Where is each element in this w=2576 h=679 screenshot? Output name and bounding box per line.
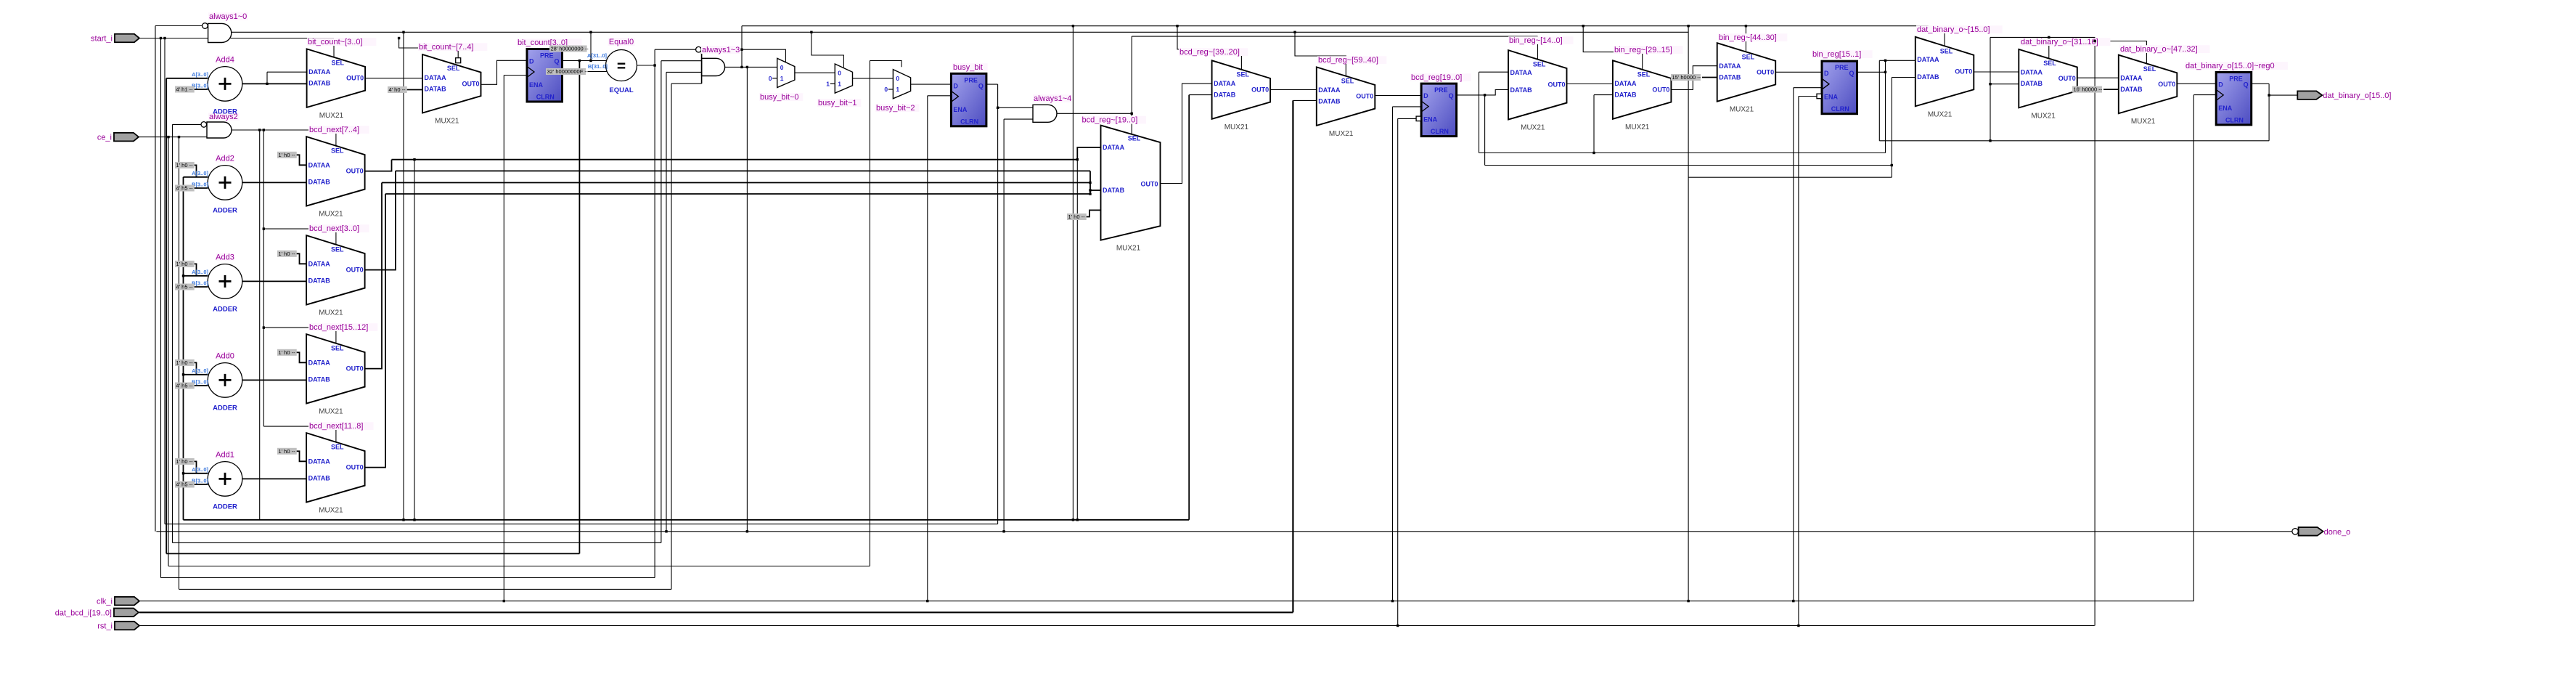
svg-text:OUT0: OUT0: [2158, 81, 2175, 88]
comparator Equal0: [606, 50, 637, 81]
svg-text:always1~3: always1~3: [702, 46, 740, 54]
svg-text:B[31..0]: B[31..0]: [588, 63, 608, 70]
wire clock into reg0: [2193, 94, 2216, 96]
wire net y721: [165, 524, 998, 525]
wire bus into bcd_reg~[19..0] DATAA: [1077, 147, 1100, 160]
AND gate always1~0: [208, 23, 232, 42]
svg-text:DATAA: DATAA: [308, 161, 331, 168]
mux MUX21 bit_count~[7..4]: [422, 54, 481, 113]
svg-text:15' h0000 --: 15' h0000 --: [1672, 74, 1701, 81]
wire Add2 sum to bcd_next[7..4] DATAB: [242, 182, 306, 183]
wire SEL drop into dat_binary_o~[15..0]: [1929, 26, 1945, 46]
wire SEL drop into busy_bit~1: [811, 32, 844, 68]
svg-text:MUX21: MUX21: [2031, 112, 2056, 120]
wire carry-in elbow of Add2: [192, 165, 197, 176]
wire carry-in elbow of Add1: [192, 461, 197, 473]
AND gate always1~3: [702, 58, 725, 76]
svg-text:busy_bit~0: busy_bit~0: [760, 93, 799, 102]
wire riser x2742: [1990, 37, 1991, 140]
svg-text:DATAB: DATAB: [1510, 86, 1533, 94]
constant 1' h0 carry-in of Add2: [175, 162, 195, 168]
svg-text:OUT0: OUT0: [1251, 86, 1269, 94]
wire bcd_reg~[59..40] OUT0 to bcd_reg DFF D: [1375, 95, 1421, 97]
wire bus into bcd_reg~[19..0] DATAB: [1090, 190, 1101, 191]
constant 1' h0 carry-in of Add3: [175, 261, 195, 267]
wire clock into bin_reg DFF: [1794, 87, 1822, 89]
svg-text:busy_bit~1: busy_bit~1: [818, 99, 857, 107]
wire vertical net x214 (always1~0 input): [155, 26, 156, 532]
svg-text:Add4: Add4: [216, 55, 234, 64]
wire clock into busy_bit DFF: [928, 95, 952, 97]
svg-text:dat_binary_o~[47..32]: dat_binary_o~[47..32]: [2120, 45, 2198, 54]
wire Equal0 net vertical x902: [654, 49, 655, 577]
wire: [192, 89, 208, 90]
mux MUX21 bcd_next[15..12]: [306, 334, 365, 403]
svg-text:OUT0: OUT0: [1757, 69, 1774, 76]
wire SEL drop into dat_binary_o~[47..32]: [2095, 41, 2146, 64]
wire bcd_next bus net y219: [392, 159, 1078, 160]
svg-text:1' h0 --: 1' h0 --: [279, 349, 296, 356]
svg-text:1: 1: [780, 75, 784, 82]
wire riser x2606: [1891, 78, 1892, 178]
wire bin_reg~[14..0] DATAA input: [1479, 71, 1509, 73]
constant 1' h0 driving bcd_next mux DATAA: [277, 152, 297, 158]
svg-text:SEL: SEL: [331, 147, 344, 155]
ENA input bubble of bin_reg[15..1]: [1817, 94, 1822, 99]
wire bin_reg~[29..15] DATAB input: [1594, 94, 1613, 96]
adder Add4: [208, 67, 242, 102]
wire 15' h0000 const to bin_reg~[44..30] DATAB: [1702, 77, 1717, 78]
wire bin_reg~[14..0] OUT0 to bin_reg~[29..15] DATAA: [1567, 84, 1613, 85]
wire always1~3 input 3: [666, 71, 702, 73]
wire const elbow bcd_reg~[19..0]: [1085, 210, 1101, 216]
svg-text:bcd_reg[19..0]: bcd_reg[19..0]: [1411, 73, 1462, 82]
svg-text:ce_i: ce_i: [97, 134, 112, 142]
svg-text:EQUAL: EQUAL: [609, 86, 633, 94]
svg-text:DATAB: DATAB: [308, 178, 331, 185]
svg-text:0: 0: [884, 86, 888, 93]
svg-text:OUT0: OUT0: [1955, 68, 1972, 75]
wire Add4 A input: [166, 78, 208, 79]
svg-text:DATAB: DATAB: [308, 474, 331, 481]
wire bcd_reg~[39..20] DATAB input: [1189, 94, 1211, 96]
wire: [192, 484, 208, 485]
svg-text:DATAA: DATAA: [1103, 144, 1125, 151]
mux MUX21 dat_binary_o~[15..0]: [1915, 37, 1974, 107]
wire SEL drop into dat_binary_o~[31..16]: [2048, 37, 2050, 58]
constant 4' h5 driving B of Add2: [175, 185, 195, 192]
wire carry-in elbow of Add0: [192, 362, 197, 374]
wire feedback riser x2037: [1479, 72, 1480, 153]
svg-text:D: D: [1824, 70, 1829, 77]
svg-text:bin_reg~[29..15]: bin_reg~[29..15]: [1614, 46, 1672, 54]
wire busy net y747: [173, 542, 661, 543]
svg-text:SEL: SEL: [2043, 60, 2056, 67]
wire clk_i net y827: [139, 601, 2193, 602]
svg-text:A[31..0]: A[31..0]: [587, 52, 608, 59]
wire busy_bit~2 OUT to busy_bit DFF D: [911, 84, 952, 85]
clock input triangle of bin_reg[15..1]: [1822, 78, 1829, 89]
wire vertical x1484 down to feedback net: [1076, 160, 1078, 520]
svg-text:4' h5 --: 4' h5 --: [176, 284, 194, 290]
input pin dat_bcd_i[19..0]: [114, 609, 139, 617]
svg-text:1: 1: [838, 81, 841, 88]
svg-text:bit_count~[3..0]: bit_count~[3..0]: [308, 38, 363, 46]
wire bcd_next feedback net y715 (thick): [184, 519, 1190, 521]
svg-text:DATAA: DATAA: [1510, 69, 1533, 76]
wire riser x2597: [1885, 60, 1886, 153]
wire: [192, 187, 208, 189]
svg-text:Q: Q: [2244, 81, 2249, 88]
wire always1~3 output to busy_bit~0 input 0: [725, 66, 777, 68]
svg-text:DATAB: DATAB: [1719, 74, 1741, 81]
svg-text:Q: Q: [1849, 70, 1854, 77]
wire dat_binary_o feedback net y194: [1879, 140, 2269, 142]
wire [31..16] OUT0 to [47..32] DATAA: [2077, 77, 2119, 78]
svg-text:0: 0: [780, 64, 784, 71]
wire busy_bit Q feedback vertical x1374: [997, 84, 999, 524]
adder Add2: [208, 166, 242, 200]
wire 4' h0 const to bit_count~[7..4] DATAB: [406, 89, 422, 91]
wire ENA into bin_reg DFF: [1799, 96, 1817, 97]
wire Add0 sum to bcd_next[15..12] DATAB: [242, 379, 306, 381]
mux MUX21 bcd_reg~[19..0]: [1101, 126, 1161, 240]
wire always2 SEL vertical x363: [263, 130, 264, 426]
wire always1~3 input 2: [661, 60, 702, 62]
wire to always1~4 input 2: [1004, 118, 1033, 120]
svg-text:4' h0 --: 4' h0 --: [389, 86, 406, 93]
wire net y244: [1688, 176, 1892, 178]
wire vertical net x237 (always2 input): [172, 124, 173, 542]
svg-text:DATAA: DATAA: [2021, 69, 2043, 76]
ENA input bubble of bcd_reg[19..0]: [1416, 116, 1421, 121]
svg-text:D: D: [2218, 81, 2223, 88]
wire vertical net x252 (bcd_reg feedback to adder A inputs): [183, 177, 184, 520]
D flip-flop dat_binary_o[15..0]~reg0: [2216, 72, 2252, 124]
svg-text:ENA: ENA: [1423, 116, 1438, 123]
constant 1' h0 driving bcd_next mux DATAA: [277, 448, 297, 455]
svg-text:bin_reg~[14..0]: bin_reg~[14..0]: [1509, 36, 1563, 45]
wire clk riser x1278: [927, 96, 928, 601]
wire bit_count~[3..0] OUT0 to bit_count~[7..4] DATAA: [365, 78, 422, 79]
wire always1~3 output riser to net y36: [741, 26, 743, 68]
wire vertical net x227 (start branch): [164, 38, 165, 524]
svg-text:Add2: Add2: [216, 154, 234, 163]
svg-text:bcd_reg~[59..40]: bcd_reg~[59..40]: [1318, 56, 1378, 65]
svg-text:DATAB: DATAB: [1318, 98, 1341, 105]
adder Add0: [208, 363, 242, 398]
svg-text:busy_bit~2: busy_bit~2: [876, 104, 915, 113]
wire always1~3 long net y36: [742, 25, 1929, 27]
svg-text:DATAB: DATAB: [2120, 86, 2143, 93]
svg-text:MUX21: MUX21: [2131, 118, 2156, 126]
svg-text:1: 1: [896, 86, 899, 93]
wire bit_count~[7..4] OUT0 to bit_count DFF D: [481, 60, 528, 84]
wire SEL drop into bin_reg~[44..30]: [1745, 26, 1746, 52]
wire bit_count net riser x814: [590, 32, 592, 60]
svg-text:clk_i: clk_i: [97, 598, 113, 606]
wire bin_reg Q: [1857, 71, 1886, 73]
svg-text:DATAB: DATAB: [1103, 187, 1125, 194]
constant 1' h0 carry-in of Add0: [175, 359, 195, 366]
svg-text:DATAB: DATAB: [2021, 80, 2043, 87]
svg-text:MUX21: MUX21: [319, 211, 343, 219]
svg-text:A[3..0]: A[3..0]: [192, 269, 208, 275]
wire dat_bcd_i net y843 (bus): [139, 611, 1293, 613]
wire carry-in elbow of Add3: [192, 264, 197, 275]
svg-text:OUT0: OUT0: [346, 75, 364, 82]
svg-text:MUX21: MUX21: [1329, 130, 1354, 138]
svg-text:SEL: SEL: [331, 246, 344, 253]
svg-text:MUX21: MUX21: [435, 118, 459, 126]
constant 4' h1 driving B of Add4: [175, 86, 195, 93]
svg-text:4' h5 --: 4' h5 --: [176, 383, 194, 389]
svg-text:ENA: ENA: [1824, 94, 1839, 101]
wire bin_reg~[29..15] OUT0 to bin_reg~[44..30] DATAA: [1671, 66, 1717, 90]
svg-text:SEL: SEL: [332, 60, 345, 67]
wire always1~4 output riser to SEL net: [1131, 36, 1132, 113]
svg-text:Add0: Add0: [216, 351, 234, 360]
svg-text:ENA: ENA: [2218, 105, 2233, 112]
wire bcd_next[3..0] OUT0 riser: [365, 171, 396, 269]
wire Add1 sum to bcd_next[11..8] DATAB: [242, 478, 306, 479]
constant 4' h5 driving B of Add3: [175, 284, 195, 290]
svg-text:SEL: SEL: [1237, 70, 1250, 78]
wire bit_count Q feedback vertical x798: [578, 61, 580, 554]
input pin clk_i: [115, 597, 139, 606]
svg-text:DATAA: DATAA: [308, 359, 331, 366]
svg-text:0: 0: [896, 75, 899, 82]
wire long vertical x1478: [1072, 26, 1074, 520]
wire SEL drop into bit_count~[7..4] bubble: [399, 38, 459, 58]
clock input triangle of bit_count[3..0]: [527, 67, 534, 78]
svg-text:1' h0 --: 1' h0 --: [176, 458, 194, 465]
mux MUX21 bit_count~[3..0]: [307, 49, 366, 107]
wire vertical net x246: [179, 137, 180, 590]
wire rst_i net y861: [139, 625, 2095, 627]
wire Equal0 output: [637, 65, 655, 66]
svg-text:OUT0: OUT0: [1652, 86, 1669, 94]
wire net y779: [168, 566, 870, 567]
wire bcd_reg~[39..20] OUT0 to bcd_reg~[59..40] DATAA: [1270, 89, 1317, 91]
wire reg0 Q feedback riser: [2268, 84, 2270, 141]
wire Add2 A input: [184, 176, 208, 178]
svg-text:CLRN: CLRN: [1831, 105, 1849, 113]
wire clk riser x694: [503, 76, 504, 601]
wire bcd_reg Q to bin_reg~[14..0] DATAB: [1457, 90, 1508, 95]
svg-text:28' h0000000 --: 28' h0000000 --: [551, 46, 589, 52]
D flip-flop bin_reg[15..1]: [1822, 61, 1857, 114]
wire SEL drop into bcd_reg~[59..40]: [1295, 32, 1346, 76]
wire rst riser x1925: [1397, 118, 1399, 625]
wire const elbow to DATAA: [295, 253, 306, 264]
svg-text:1' h0 --: 1' h0 --: [176, 359, 194, 366]
wire clock into bcd_reg DFF: [1393, 106, 1422, 107]
wire to always1~3 inverted input: [655, 49, 696, 50]
wire always1~4 output to bcd_reg~[19..0] SEL: [1057, 113, 1132, 134]
svg-text:A[3..0]: A[3..0]: [192, 466, 208, 473]
wire busy_bit Q: [986, 84, 998, 85]
mux MUX21 bin_reg~[29..15]: [1613, 60, 1672, 119]
svg-text:SEL: SEL: [1128, 135, 1141, 142]
svg-text:dat_binary_o[15..0]: dat_binary_o[15..0]: [2323, 92, 2391, 100]
wire long vertical x571: [414, 160, 415, 520]
wire busy_bit~0 source vertical x1029: [746, 67, 748, 531]
svg-text:DATAB: DATAB: [308, 277, 331, 284]
wire bit_count feedback net y762 (thick): [166, 553, 579, 554]
svg-text:1' h0 --: 1' h0 --: [1068, 214, 1086, 220]
wire bcd_reg~[59..40] DATAB input: [1293, 99, 1316, 101]
AND gate always2: [207, 122, 232, 138]
clock input triangle of bcd_reg[19..0]: [1421, 101, 1428, 112]
svg-text:D: D: [953, 82, 958, 89]
wire riser x2589: [1878, 60, 1880, 141]
wire always2 output net: [232, 129, 336, 131]
wire net y811: [179, 588, 672, 590]
mux MUX21 bcd_next[3..0]: [306, 235, 365, 305]
constant: [388, 86, 407, 93]
AND gate always1~4: [1033, 105, 1057, 122]
svg-text:PRE: PRE: [964, 76, 978, 84]
wire SEL drop into bin_reg~[29..15]: [1583, 26, 1643, 70]
wire bcd_reg Q down to net y227: [1484, 95, 1486, 166]
svg-text:DATAA: DATAA: [1614, 80, 1637, 87]
svg-text:ADDER: ADDER: [213, 206, 237, 214]
wire bin_reg~[44..30] OUT0 to bin_reg DFF D: [1775, 71, 1822, 73]
svg-text:A[3..0]: A[3..0]: [192, 71, 208, 78]
svg-text:OUT0: OUT0: [1356, 93, 1373, 100]
svg-text:CLRN: CLRN: [536, 94, 555, 101]
clock input triangle of dat_binary_o[15..0]~reg0: [2216, 89, 2223, 100]
svg-text:MUX21: MUX21: [1521, 124, 1545, 132]
svg-text:1' h0 --: 1' h0 --: [279, 251, 296, 257]
svg-text:ADDER: ADDER: [213, 305, 237, 313]
adder Add3: [208, 264, 242, 299]
svg-text:Q: Q: [978, 82, 984, 89]
svg-text:SEL: SEL: [447, 65, 460, 72]
wire reg0 Q: [2252, 83, 2269, 84]
svg-text:SEL: SEL: [1533, 61, 1546, 68]
wire bcd_next[15..12] OUT0 riser: [365, 183, 382, 369]
constant 4' h5 driving B of Add1: [175, 481, 195, 488]
wire vertical x1383: [1003, 119, 1005, 532]
svg-text:DATAB: DATAB: [308, 80, 331, 87]
wire SEL drop into bcd_next[3..0]: [263, 229, 336, 244]
svg-text:start_i: start_i: [91, 35, 113, 44]
wire clk riser x3022: [2193, 95, 2194, 601]
mux busy_bit~1: [835, 64, 852, 93]
constant 15' h0000 driving bin_reg~[44..30] DATAB: [1671, 74, 1701, 81]
svg-text:4' h5 --: 4' h5 --: [176, 185, 194, 192]
wire to always2 inverted input: [173, 123, 202, 125]
D flip-flop busy_bit: [951, 73, 986, 126]
wire DATAB feed vertical x1638: [1188, 95, 1190, 520]
wire bit_count Q to Equal0 A: [563, 60, 607, 62]
svg-text:SEL: SEL: [331, 444, 344, 451]
wire vertical net x232 (ce branch): [168, 137, 169, 566]
wire dat_bcd_i riser x1781: [1292, 100, 1293, 612]
svg-text:Equal0: Equal0: [609, 38, 634, 46]
mux MUX21 bin_reg~[14..0]: [1508, 50, 1567, 120]
svg-text:Add3: Add3: [216, 253, 234, 261]
svg-text:CLRN: CLRN: [2225, 116, 2244, 123]
wire long vertical x556: [403, 32, 404, 520]
svg-text:4' h1 --: 4' h1 --: [176, 86, 194, 93]
svg-text:1' h0 --: 1' h0 --: [279, 448, 296, 455]
constant 1' h0 driving bcd_next mux DATAA: [277, 349, 297, 356]
adder Add1: [208, 462, 242, 497]
svg-text:1' h0 --: 1' h0 --: [176, 162, 194, 168]
wire riser x2196: [1593, 95, 1595, 153]
wire rst riser x2477: [1798, 97, 1799, 626]
svg-text:MUX21: MUX21: [319, 408, 343, 416]
wire Add3 A input: [184, 275, 208, 277]
svg-text:dat_bcd_i[19..0]: dat_bcd_i[19..0]: [55, 609, 112, 617]
svg-text:always1~4: always1~4: [1034, 94, 1071, 103]
input pin ce_i: [114, 133, 139, 142]
mux MUX21 dat_binary_o~[31..16]: [2019, 49, 2077, 107]
svg-text:bcd_next[11..8]: bcd_next[11..8]: [309, 422, 363, 431]
wire to always1~4 input 1: [998, 107, 1033, 108]
svg-text:MUX21: MUX21: [1224, 123, 1249, 131]
svg-text:SEL: SEL: [1940, 47, 1953, 54]
wire const elbow to DATAA: [295, 155, 306, 165]
svg-text:DATAB: DATAB: [1917, 73, 1939, 81]
svg-text:OUT0: OUT0: [346, 267, 364, 274]
mux MUX21 bcd_reg~[59..40]: [1317, 67, 1375, 125]
svg-text:Q: Q: [554, 58, 559, 65]
wire bin_reg feedback net y210: [1479, 153, 1886, 154]
svg-text:MUX21: MUX21: [1116, 245, 1141, 253]
constant 1' h0 driving bcd_next mux DATAA: [277, 251, 297, 257]
wire Add4 sum to bit_count~[3..0] DATAB: [242, 83, 307, 84]
wire done_o net y731: [156, 531, 2291, 532]
svg-text:PRE: PRE: [1835, 64, 1849, 71]
wire bcd feedback net y227: [1485, 165, 1892, 166]
wire ce_i net: [138, 137, 207, 138]
wire always1~0 output net y44: [232, 31, 1688, 33]
svg-text:busy_bit: busy_bit: [953, 63, 983, 72]
output pin dat_binary_o[15..0]: [2297, 91, 2322, 99]
wire bus riser x1502: [1089, 171, 1091, 194]
wire clk riser x1918: [1392, 107, 1394, 601]
mux busy_bit~2: [893, 70, 910, 99]
svg-text:SEL: SEL: [1341, 78, 1354, 85]
wire long vertical net x2326: [1688, 26, 1689, 601]
svg-text:bcd_next[15..12]: bcd_next[15..12]: [309, 323, 368, 332]
wire Add1 A input: [184, 473, 208, 474]
wire bcd_next[11..8] OUT0 riser: [365, 194, 385, 468]
svg-text:MUX21: MUX21: [1625, 123, 1650, 131]
wire ENA into bcd_reg DFF: [1398, 118, 1416, 119]
svg-text:Q: Q: [1449, 92, 1454, 99]
constant 1' h0 for bcd_reg~[19..0]: [1067, 214, 1087, 220]
svg-text:DATAB: DATAB: [308, 375, 331, 383]
wire busy_bit~1 OUT to busy_bit~2 input 0: [853, 78, 894, 79]
wire SEL drop into busy_bit~2: [870, 61, 901, 68]
wire DATAA jog: [266, 72, 268, 84]
svg-text:MUX21: MUX21: [1928, 110, 1953, 118]
svg-text:DATAB: DATAB: [425, 85, 447, 92]
wire vertical net x221 (start branch): [160, 38, 162, 578]
svg-text:done_o: done_o: [2324, 528, 2351, 537]
constant 32' h0000000F: [546, 68, 586, 75]
wire vertical x911: [661, 61, 662, 543]
wire 32' h0000000F const to Equal0 B: [588, 71, 607, 73]
svg-text:Add1: Add1: [216, 450, 234, 459]
wire bcd_next bus net y235: [396, 170, 1090, 171]
svg-text:D: D: [529, 58, 534, 65]
